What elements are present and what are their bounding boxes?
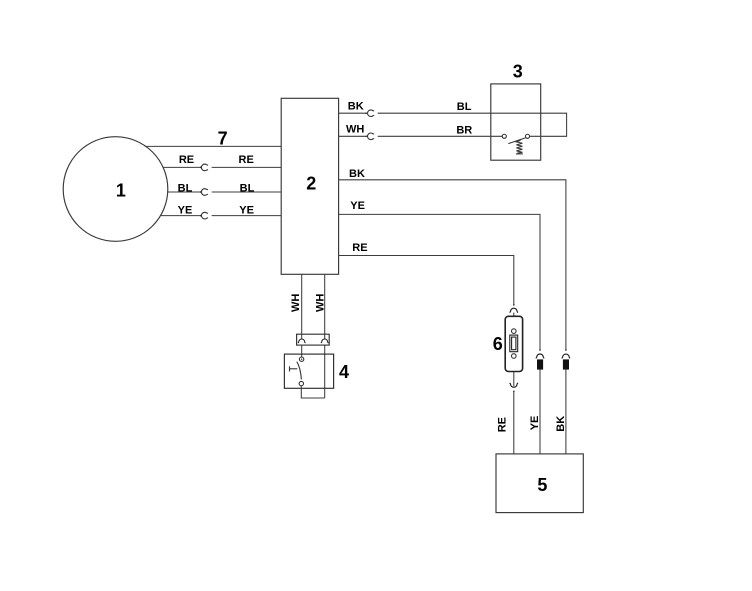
wire RE right: box2 to fuse 6 to battery box5 [339,256,514,306]
svg-text:4: 4 [339,362,349,382]
svg-text:BK: BK [349,168,365,180]
wire YE to box5 [539,370,541,454]
connector dome YE [536,354,545,358]
svg-text:RE: RE [352,242,367,254]
connector dome BK [562,354,571,358]
wire end dot WH [365,135,367,137]
wire end dot RE vertical [513,304,515,306]
svg-text:YE: YE [529,416,541,431]
switch box 3 [491,84,541,160]
fuse top contact circle [512,329,517,334]
wire right from block down through box4 [324,345,326,398]
wire through fuse [513,313,515,387]
connector WH (c arc) [368,133,375,140]
wire BL to box3 and loop to switch right terminal [378,113,567,136]
svg-text:YE: YE [350,200,365,212]
wire end dot BK [365,112,367,114]
svg-text:BR: BR [456,125,472,137]
svg-text:WH: WH [314,294,326,312]
connector RE (c arc) [201,164,208,171]
wire end dot below fuse [513,391,515,393]
switch top terminal (box4) [299,357,303,361]
wire RE right segment [212,166,282,168]
switch return spring (box3) [516,140,522,153]
wire BL right segment [212,191,282,193]
svg-text:BK: BK [348,100,364,112]
svg-text:BK: BK [555,416,567,432]
wire end dot BK vertical [565,349,567,351]
svg-text:YE: YE [239,205,254,217]
wire BK to box5 [565,370,567,454]
svg-text:BL: BL [178,182,193,194]
wire BK right: box2 to battery box5 [339,180,566,350]
switch actuator T (box4) [290,368,298,370]
svg-text:1: 1 [116,180,126,200]
switch terminal left (box3) [502,134,506,138]
terminal center dot (box4) [301,359,302,360]
wire end dot BL [200,191,202,193]
svg-text:7: 7 [218,129,228,149]
connector dome right in block [321,339,329,343]
wire from block to switch box4 [301,345,303,357]
connector block between box2 and box4 [297,334,330,345]
bullet connector YE (black) [537,359,543,369]
wire end dot YE vertical [539,349,541,351]
wire WH left vertical from box2 [301,274,303,339]
spring bottom bar (box3) [516,153,523,155]
svg-text:YE: YE [178,205,193,217]
wire WH/BR: box2 to switch left terminal [339,135,367,137]
wire YE right: box2 to battery box5 [339,214,540,350]
fuse element [510,335,518,352]
wire YE left segment [161,215,201,217]
connector dome fuse top [510,308,519,312]
svg-text:RE: RE [239,154,254,166]
svg-text:WH: WH [290,294,302,312]
connector BK (c arc) [368,110,375,117]
svg-text:RE: RE [497,417,509,432]
battery/load box 5 [496,454,583,513]
svg-text:2: 2 [306,174,316,194]
wire RE left segment [163,166,201,168]
wire RE to box5 [513,392,515,454]
svg-text:WH: WH [346,124,364,136]
fuse 6 body [505,316,522,371]
CDI unit box 2 [281,98,338,274]
svg-text:BL: BL [240,182,255,194]
wire BL left segment [168,191,201,193]
wire end dot RE [200,167,202,169]
switch blade (box4) [297,362,302,380]
svg-text:5: 5 [537,475,547,495]
switch bottom terminal (box4) [299,381,303,385]
wire from bottom terminal loop back up [301,386,324,398]
switch actuator T bar (box4) [289,366,291,371]
wire WH right vertical from box2 [324,274,326,339]
svg-text:6: 6 [493,334,503,354]
switch terminal right (box3) [525,134,529,138]
switch blade (box3) [508,138,525,144]
connector YE (c arc) [201,212,208,219]
wire YE right segment [212,215,282,217]
wire BK/BL top: box2 to switch box3 [339,112,367,114]
wire 7 bundle circle1 to box2 [145,145,281,147]
generator/magneto 1 (circle) [63,137,168,242]
connector cup fuse bottom [510,383,519,387]
connector dome left in block [298,339,306,343]
fuse bottom contact circle [512,354,517,359]
wire end dot YE [200,215,202,217]
bullet connector BK (black) [563,359,569,369]
svg-text:RE: RE [179,154,194,166]
fuse element inner [512,337,516,350]
wire BR segment to switch left terminal [378,135,503,137]
kill switch box 4 [284,354,333,388]
connector BL (c arc) [201,189,208,196]
svg-text:3: 3 [513,61,523,81]
svg-text:BL: BL [457,101,472,113]
